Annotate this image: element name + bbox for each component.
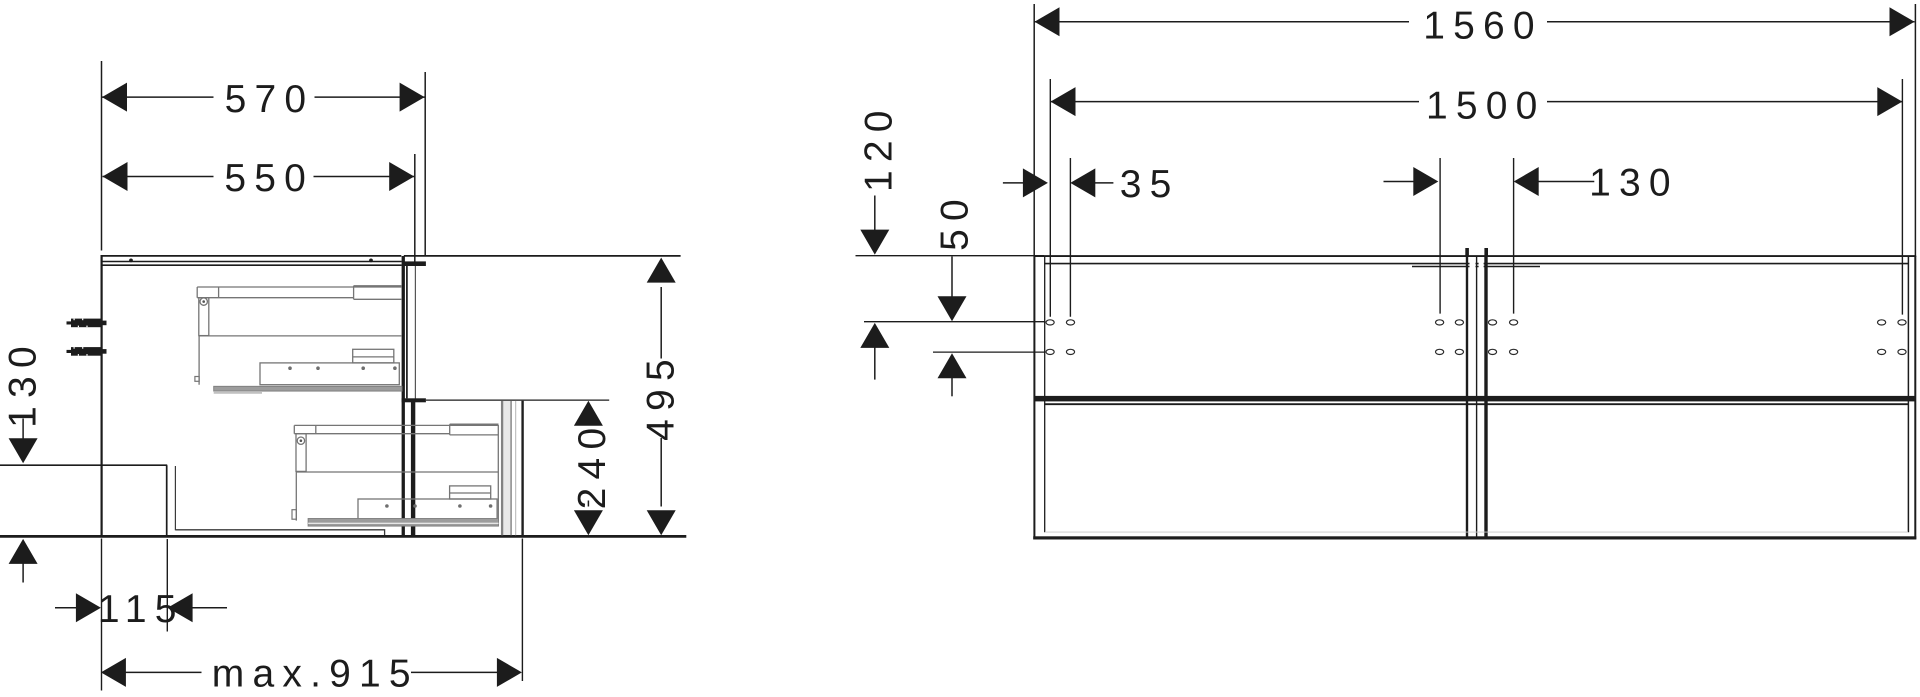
hole slots group 2 (left of divider) [1436,320,1464,355]
upper drawer pivot post [199,298,209,336]
bottom panel top face [175,530,384,535]
hole slots group 3 (right of divider) [1488,320,1517,355]
svg-text:115: 115 [98,588,185,631]
extension 115 right / cutout vertical lower [166,539,168,632]
cabinet top line2 [1044,263,1908,265]
reference line hole row1 [864,321,1045,323]
front stile F2b (below divider) [411,402,415,537]
center divider line a [1466,257,1468,537]
cabinet bottom inner line [1045,531,1908,533]
svg-text:50: 50 [933,191,976,251]
extension 35 right [1069,158,1071,317]
svg-text:35: 35 [1120,163,1180,206]
extension line 570 right [424,72,426,256]
hole slots group 4 (right end) [1878,320,1907,355]
hole slots group 1 (left) [1046,320,1075,355]
lower drawer pivot post [296,434,306,472]
lower drawer front line L3 [515,401,517,535]
wall screw bottom [67,347,107,356]
extension 1500 right [1901,79,1903,315]
upper drawer box top line [199,336,402,385]
svg-text:570: 570 [225,78,315,121]
svg-text:240: 240 [571,420,614,510]
front stile F2 [406,262,408,398]
divider top notch whites [1470,259,1476,269]
extension line 570/550 left [101,61,103,251]
upper drawer front face line [414,263,416,400]
extension 1560 right [1914,4,1916,256]
extension 130 left [1439,158,1441,314]
cabinet top panel line2 [101,261,402,263]
upper drawer dark band [214,386,402,391]
svg-text:1560: 1560 [1423,5,1543,48]
cabinet left wall inner [1044,257,1046,532]
reference line 240 top [426,399,609,401]
cabinet top line1 [1034,255,1916,257]
lower drawer front panel light fill [503,401,511,535]
dimension max.915 [101,653,522,696]
divider top tabs [1465,248,1469,257]
svg-text:495: 495 [640,351,683,441]
dimension 120 (vertical) [858,102,901,379]
cutout vertical (inner) [174,466,176,530]
lower drawer front face line L4 [521,401,523,537]
svg-text:max.915: max.915 [212,653,419,696]
upper front bottom cap [402,398,426,402]
lower drawer slide rail [294,424,498,435]
dimension 570 line [102,76,425,121]
dimension 550 line [103,155,415,200]
upper drawer left notch [195,377,199,382]
upper front top cap [404,261,426,266]
dimension 35 [1003,163,1180,206]
lower drawer box top line [296,425,499,521]
top panel screw dots [129,259,133,263]
center divider line b [1476,257,1478,537]
extension 1500 left [1049,79,1051,317]
dimension 115 [55,588,227,631]
lower drawer small rect [450,486,491,499]
extension line 550 right [414,154,416,263]
lower drawer front line L1 [501,401,503,536]
dimension 240 (vertical) [571,401,614,535]
extension max.915 left [101,539,103,691]
dimension 495 (vertical) [640,258,683,536]
dimension 1560 [1035,1,1915,48]
floor / cabinet bottom line [0,535,686,538]
upper drawer bracket [260,363,399,385]
lower drawer front line L2 [510,401,512,535]
cabinet right wall outer [1914,256,1916,539]
cabinet top line3 near divider [1412,266,1540,268]
svg-text:550: 550 [224,157,314,200]
upper drawer small rect [353,349,394,363]
reference line cutout top [0,464,167,466]
cutout vertical (dark) [166,465,168,536]
svg-text:1500: 1500 [1426,84,1546,127]
lower drawer dark band [308,519,498,527]
svg-text:130: 130 [1589,162,1679,205]
cabinet top panel line3 [101,264,402,266]
dimension 50 (vertical) [933,191,976,396]
cabinet left wall outer [1033,256,1035,539]
svg-text:130: 130 [2,338,45,428]
cabinet top panel line1 (also 495 reference) [101,255,681,257]
extension 1560 left [1033,4,1035,256]
upper drawer band underline [214,392,262,394]
extension 130 right [1513,158,1515,314]
center divider line c [1484,257,1487,537]
lower drawer bracket [358,499,497,521]
reference line hole row2 [933,351,1045,353]
reference line 120 top [856,255,1045,257]
cabinet bottom band [1033,536,1916,539]
dimension 1500 [1051,81,1903,128]
lower drawer left notch [292,510,296,520]
cabinet right wall inner [1907,257,1909,532]
cabinet left side wall [100,255,102,538]
wall screw top [67,319,107,328]
drawer rows divider line2 [1044,403,1908,405]
drawer rows divider band [1034,396,1915,402]
extension max.915 right [521,539,523,682]
svg-text:120: 120 [858,102,901,192]
front stile F1 [402,256,405,536]
dimension 130 right [1384,162,1679,205]
dimension 130 left (vertical) [2,338,45,582]
upper drawer slide rail [197,286,402,300]
